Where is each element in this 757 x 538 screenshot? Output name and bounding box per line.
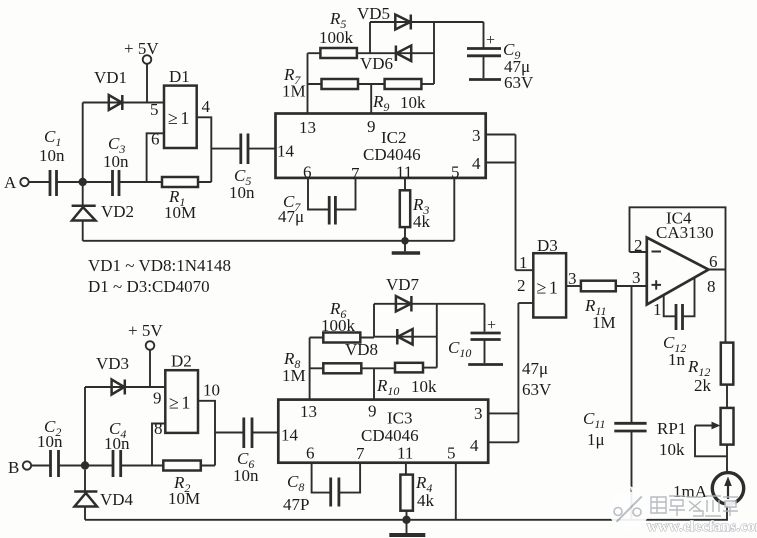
svg-text:2: 2: [634, 236, 643, 255]
pin 6 label IC3: [306, 444, 315, 463]
svg-text:www.elecfans.com: www.elecfans.com: [647, 519, 757, 535]
pin 10 D2: [198, 381, 220, 466]
pin 2 IC4: [630, 236, 647, 255]
diode VD1: [94, 68, 127, 110]
svg-text:4k: 4k: [417, 491, 435, 510]
wire pin4 IC2: [486, 162, 516, 164]
svg-text:2: 2: [517, 276, 526, 295]
svg-text:1M: 1M: [282, 366, 306, 385]
op-amp IC2 box CD4046: [276, 114, 486, 178]
pin 4 label IC3: [470, 436, 479, 455]
wire C5 to IC2 pin14: [248, 148, 276, 150]
resistor R10: [376, 363, 437, 398]
resistor R1: [162, 177, 198, 222]
svg-text:6: 6: [709, 252, 718, 271]
wire C2 to C4: [59, 465, 114, 467]
wire diode pair B left vertical: [373, 304, 375, 338]
svg-text:13: 13: [300, 402, 317, 421]
svg-text:5: 5: [150, 100, 159, 119]
pin 3 D3 output: [566, 269, 581, 288]
svg-text:VD4: VD4: [100, 490, 134, 509]
svg-text:VD3: VD3: [96, 354, 129, 373]
svg-text:4: 4: [472, 154, 481, 173]
svg-text:1M: 1M: [592, 313, 616, 332]
svg-text:+: +: [486, 32, 495, 49]
svg-text:100k: 100k: [319, 28, 354, 47]
resistor R3: [400, 178, 431, 241]
watermark url: [647, 519, 757, 535]
wire RP1 to meter: [726, 445, 728, 473]
wire A to C1: [29, 181, 50, 183]
capacitor C2: [37, 417, 63, 477]
svg-text:≥1: ≥1: [537, 278, 561, 298]
svg-text:VD1: VD1: [94, 68, 127, 87]
wire VD1 line: [83, 102, 164, 104]
svg-text:CD4046: CD4046: [361, 426, 419, 445]
wire bottom rail: [85, 519, 728, 521]
diode VD7: [386, 275, 420, 312]
wire top rail: [83, 240, 455, 242]
svg-text:5: 5: [447, 444, 456, 463]
svg-text:47μ: 47μ: [522, 359, 548, 378]
svg-text:10n: 10n: [104, 434, 130, 453]
diode VD4: [74, 470, 133, 509]
svg-text:10n: 10n: [229, 183, 255, 202]
svg-text:10n: 10n: [233, 466, 259, 485]
svg-text:VD1 ~ VD8:1N4148: VD1 ~ VD8:1N4148: [88, 256, 231, 275]
pin 3 label IC3: [474, 404, 483, 423]
power +5V A: [124, 39, 159, 103]
resistor R4: [400, 463, 434, 520]
svg-text:6: 6: [151, 130, 160, 149]
pin 9 label IC2: [367, 117, 376, 136]
wire VD3 line: [85, 386, 165, 388]
pin 7 label IC2: [351, 164, 360, 183]
svg-text:IC3: IC3: [387, 409, 413, 428]
pin 4 label IC2: [472, 154, 481, 173]
svg-text:3: 3: [632, 268, 641, 287]
svg-text:1μ: 1μ: [587, 430, 605, 449]
svg-text:4: 4: [202, 97, 211, 116]
svg-text:2k: 2k: [694, 376, 712, 395]
wire pin5 IC2 down: [453, 178, 455, 241]
wire R11 to IC4 pin3: [616, 285, 647, 287]
pin 14 label IC3: [281, 426, 299, 445]
pin 2 D3: [517, 276, 533, 303]
ground A: [392, 241, 420, 253]
svg-text:D3: D3: [537, 236, 558, 255]
svg-text:8: 8: [154, 419, 163, 438]
wire diode pair right vertical: [433, 22, 435, 84]
svg-text:63V: 63V: [522, 380, 552, 399]
capacitor C4: [104, 419, 130, 477]
wire junction B up: [84, 387, 86, 466]
svg-text:4: 4: [470, 436, 479, 455]
svg-text:10M: 10M: [168, 489, 200, 508]
pin 11 label IC3: [397, 444, 413, 463]
note text: [88, 256, 231, 296]
pin 5 label D1: [150, 100, 159, 119]
wire VD4 down: [84, 507, 86, 520]
svg-text:3: 3: [568, 269, 577, 288]
node B: [8, 458, 31, 477]
pin 3 label IC4: [632, 268, 641, 287]
resistor R7: [282, 65, 385, 101]
svg-text:6: 6: [306, 444, 315, 463]
wire VD8 line: [374, 336, 437, 338]
capacitor C9: [467, 22, 534, 92]
wire to C10: [437, 303, 485, 305]
node R4 ground junction: [402, 516, 410, 524]
svg-text:7: 7: [356, 444, 365, 463]
capacitor C6: [233, 418, 259, 486]
svg-text:3: 3: [474, 404, 483, 423]
gate D3: [533, 236, 566, 318]
svg-text:10M: 10M: [164, 203, 196, 222]
op-amp triangle IC4: [647, 238, 709, 305]
resistor R2: [163, 461, 201, 509]
svg-text:63V: 63V: [504, 73, 534, 92]
svg-text:9: 9: [153, 389, 162, 408]
capacitor C11: [583, 286, 647, 520]
wire diode pair B right vertical: [436, 304, 438, 368]
pin 5 label IC3: [447, 444, 456, 463]
node junction A: [79, 178, 87, 186]
wire pin4 IC3: [488, 441, 518, 443]
resistor R9: [372, 79, 434, 114]
node R3 ground junction: [401, 237, 409, 245]
pin 1 D3: [516, 253, 534, 272]
wire pin13 IC3 up: [309, 338, 311, 400]
svg-text:A: A: [4, 173, 17, 192]
svg-text:≥1: ≥1: [169, 393, 193, 413]
diode VD2: [72, 186, 134, 221]
svg-text:D1: D1: [169, 67, 190, 86]
pin 5 label IC2: [451, 163, 460, 182]
pin 1 label IC4: [653, 300, 662, 319]
svg-text:1mA: 1mA: [673, 482, 708, 501]
svg-text:VD5: VD5: [357, 4, 390, 23]
capacitor C8: [283, 463, 360, 514]
svg-text:+ 5V: + 5V: [128, 321, 163, 340]
svg-text:10n: 10n: [39, 146, 65, 165]
wire C3 to R1: [119, 181, 162, 183]
svg-text:47P: 47P: [283, 495, 309, 514]
pin 6 IC4 output: [709, 252, 726, 271]
svg-text:1: 1: [519, 253, 528, 272]
capacitor C1: [39, 127, 65, 196]
wire VD5 line: [370, 21, 434, 23]
diode VD5: [357, 4, 411, 30]
diode VD6: [360, 46, 411, 74]
wire D1 out to C5: [211, 148, 241, 150]
svg-text:8: 8: [707, 277, 716, 296]
pin 13 label IC2: [299, 118, 316, 137]
diode VD8: [345, 329, 413, 359]
capacitor C5: [229, 134, 255, 203]
wire to C9: [434, 21, 484, 23]
wire meter to rail: [726, 504, 728, 520]
svg-text:10n: 10n: [37, 432, 63, 451]
node A: [4, 173, 29, 192]
svg-text:+: +: [487, 317, 496, 334]
wire C1 to C3: [57, 181, 113, 183]
wire pin3 IC3: [488, 412, 518, 414]
svg-text:D2: D2: [171, 352, 192, 371]
svg-text:≥1: ≥1: [168, 108, 192, 128]
pin 13 label IC3: [300, 402, 317, 421]
wire VD6 line: [370, 52, 434, 54]
wire C4 to R2: [121, 465, 164, 467]
pin 11 label IC2: [396, 163, 412, 182]
pin 6 label IC2: [303, 163, 312, 182]
wire pin5 IC3 down: [455, 463, 457, 520]
svg-text:4k: 4k: [413, 212, 431, 231]
wire C6 to IC3 pin14: [252, 432, 278, 434]
resistor R6: [310, 299, 374, 343]
svg-text:5: 5: [451, 163, 460, 182]
wire R12 to RP1: [726, 385, 728, 408]
watermark text: [651, 496, 738, 516]
resistor R12: [687, 343, 733, 395]
svg-text:RP1: RP1: [657, 419, 686, 438]
watermark logo: [610, 486, 649, 531]
potentiometer RP1: [657, 408, 734, 459]
svg-text:VD6: VD6: [360, 54, 393, 73]
wire B to C2: [31, 465, 50, 467]
svg-text:3: 3: [472, 126, 481, 145]
op-amp IC3 box CD4046: [278, 400, 488, 463]
svg-text:VD8: VD8: [345, 340, 378, 359]
svg-text:100k: 100k: [321, 316, 356, 335]
resistor R11: [581, 281, 616, 332]
meter 1mA: [673, 473, 744, 504]
svg-text:11: 11: [397, 444, 413, 463]
capacitor C12: [663, 278, 695, 370]
pin 7 label IC3: [356, 444, 365, 463]
wire VD7 line: [374, 303, 437, 305]
svg-text:10k: 10k: [400, 93, 426, 112]
svg-text:CD4046: CD4046: [363, 145, 421, 164]
capacitor C3: [103, 134, 129, 196]
gate D2: [165, 352, 198, 433]
svg-text:10k: 10k: [659, 440, 685, 459]
svg-text:47μ: 47μ: [278, 207, 304, 226]
wire pin3 IC2: [486, 134, 516, 136]
wire to D3 pin2: [517, 303, 519, 442]
capacitor C7: [278, 178, 356, 226]
diode VD3: [96, 354, 129, 395]
wire diode pair left vertical: [369, 22, 371, 53]
svg-text:CA3130: CA3130: [656, 223, 714, 242]
svg-text:1M: 1M: [282, 82, 306, 101]
svg-text:VD2: VD2: [101, 202, 134, 221]
svg-text:10: 10: [203, 381, 220, 400]
svg-text:10n: 10n: [103, 152, 129, 171]
svg-text:14: 14: [277, 142, 295, 161]
pin 3 label IC2: [472, 126, 481, 145]
wire pin9 up: [370, 84, 372, 114]
wire to D3 pin1: [515, 135, 517, 271]
svg-text:B: B: [8, 458, 19, 477]
pin 4 D1: [197, 97, 212, 182]
svg-text:10k: 10k: [411, 377, 437, 396]
pin 8 label IC4: [707, 277, 716, 296]
pin 14 label IC2: [277, 142, 295, 161]
svg-text:D1 ~ D3:CD4070: D1 ~ D3:CD4070: [88, 277, 210, 296]
svg-text:9: 9: [368, 402, 377, 421]
wire VD2 down: [82, 221, 84, 241]
svg-text:1n: 1n: [668, 350, 686, 369]
wire pin9 IC3 up: [373, 368, 375, 399]
op-amp IC4 CA3130: [630, 207, 726, 342]
pin 8 D2: [152, 419, 165, 466]
gate D1: [164, 67, 197, 148]
wire pin13 up: [307, 53, 309, 113]
pin 6 D1: [147, 130, 164, 183]
svg-text:14: 14: [281, 426, 299, 445]
wire D2 out to C6: [215, 432, 244, 434]
svg-text:9: 9: [367, 117, 376, 136]
pin 9 label D2: [153, 389, 162, 408]
power +5V B: [128, 321, 163, 387]
node junction B: [81, 461, 89, 469]
wire junction up: [82, 103, 84, 183]
svg-text:13: 13: [299, 118, 316, 137]
resistor R8: [282, 349, 395, 385]
resistor R5: [308, 9, 371, 58]
svg-text:+ 5V: + 5V: [124, 39, 159, 58]
svg-text:VD7: VD7: [386, 275, 420, 294]
pin 9 label IC3: [368, 402, 377, 421]
ground B: [389, 520, 425, 535]
svg-text:1: 1: [653, 300, 662, 319]
capacitor C10: [448, 304, 552, 399]
